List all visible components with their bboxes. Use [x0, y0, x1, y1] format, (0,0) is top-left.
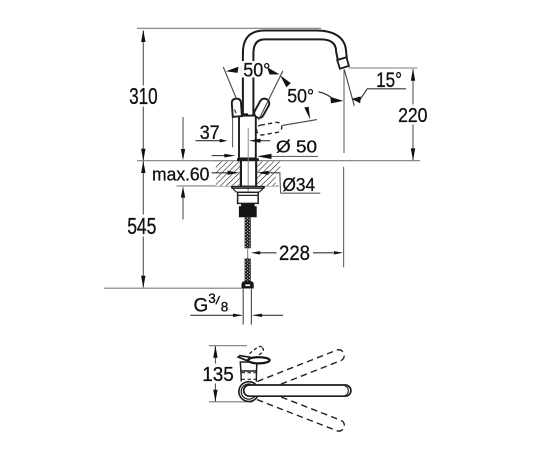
counter hatching left: [216, 162, 240, 186]
37 extension line (handle edge): [232, 111, 234, 147]
connector tail right: [250, 288, 252, 324]
arc arrow bowtie on right leg: [267, 67, 279, 74]
svg-text:37: 37: [200, 122, 220, 144]
svg-text:G: G: [194, 295, 209, 316]
hose break centerline: [247, 248, 249, 258]
dimension Ø50: [212, 137, 318, 159]
dimension 220: [398, 69, 427, 161]
50deg right leg line: [259, 71, 283, 120]
mounting nut: [238, 192, 259, 203]
G3/8 dimension arrows: [190, 314, 283, 317]
dimension 310: [129, 30, 158, 161]
body outer circle (top view): [239, 382, 259, 402]
dashed spout position upper (top view): [247, 348, 346, 396]
counter underside line: [177, 185, 279, 187]
svg-text:135: 135: [202, 363, 234, 386]
handle paddle ellipse (top view): [248, 357, 270, 363]
cap on body top: [244, 113, 248, 115]
handle base trapezoid (top view): [240, 362, 257, 371]
135 upper extension line: [209, 345, 247, 347]
220 reference line at outlet: [349, 67, 418, 69]
dimension max.60: [152, 117, 209, 220]
spout tube end inner arc (top view): [345, 386, 348, 396]
dimension 37: [196, 122, 271, 144]
aerator: [337, 57, 349, 68]
plumb line from spout tip: [343, 69, 345, 153]
label 50deg (first): [242, 61, 272, 78]
svg-text:220: 220: [398, 104, 427, 127]
15deg right arrow: [352, 96, 361, 103]
counter top line: [137, 160, 420, 162]
dimension 228: [251, 241, 343, 265]
connector tail left: [242, 288, 244, 324]
label G 3/8: [194, 291, 229, 316]
handle beak pointing left (top view): [238, 356, 249, 362]
15deg flow line: [344, 70, 354, 106]
shank wall right: [255, 161, 257, 186]
svg-text:max.60: max.60: [152, 163, 209, 184]
dashed lever leg line: [282, 120, 317, 126]
svg-text:310: 310: [129, 83, 158, 109]
svg-text:Ø 50: Ø 50: [276, 137, 317, 157]
dimension 135: [202, 346, 234, 402]
aerator separator: [337, 57, 347, 60]
svg-text:545: 545: [127, 213, 156, 239]
svg-text:228: 228: [279, 241, 310, 265]
svg-text:Ø34: Ø34: [283, 174, 316, 195]
spout inner contour: [253, 39, 337, 116]
braided hose upper: [245, 217, 251, 248]
supply block: [239, 203, 257, 217]
svg-text:50°: 50°: [243, 60, 270, 82]
counter hatching right: [257, 162, 280, 173]
solid spout bar (top view): [244, 385, 351, 396]
spout outer contour: [243, 31, 347, 117]
handle lower section (top view): [241, 371, 257, 382]
braided hose lower: [245, 258, 251, 282]
15deg leader and label: [360, 89, 367, 100]
dashed spout position lower (top view): [247, 385, 346, 432]
base flange: [237, 158, 259, 161]
svg-text:3: 3: [208, 291, 216, 306]
svg-text:50°: 50°: [287, 85, 314, 107]
washer plate: [231, 187, 265, 193]
top reference line (spout top level): [137, 27, 321, 29]
body inner circle (top view): [241, 384, 256, 399]
dashed lever (horizontal): [256, 122, 283, 136]
dashed raised lever (top view): [248, 345, 265, 360]
bottom reference line (hose end level): [104, 287, 254, 289]
50deg left leg line: [223, 67, 236, 99]
svg-text:15°: 15°: [376, 69, 402, 92]
closed lever (vertical): [231, 98, 241, 116]
shank wall left: [240, 161, 242, 186]
arrow to dashed lever: [304, 107, 310, 120]
hidden edge dash in closed lever: [235, 110, 238, 118]
hose end fitting: [242, 281, 254, 288]
dimension 545: [127, 161, 156, 288]
dimension Ø34: [212, 171, 321, 195]
open lever (tilted right): [253, 97, 271, 120]
body: [239, 116, 256, 159]
svg-text:8: 8: [221, 300, 229, 315]
arc arrow left of 50deg: [226, 67, 239, 73]
centerline of body: [247, 128, 249, 203]
15deg left arrow with curved tail: [319, 92, 332, 98]
135 lower extension line: [209, 401, 253, 403]
